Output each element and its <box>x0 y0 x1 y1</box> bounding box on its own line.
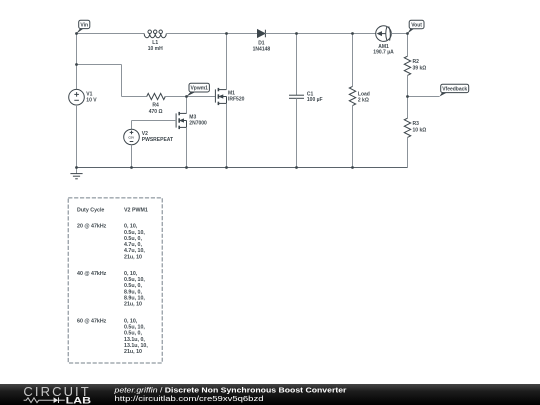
svg-text:2 kΩ: 2 kΩ <box>358 97 369 103</box>
svg-text:R3: R3 <box>413 121 420 127</box>
wire M3 gate to V2 <box>132 121 177 130</box>
annotation table dashed box <box>68 198 162 363</box>
resistor R2 <box>404 34 410 97</box>
svg-text:20 @ 47kHz: 20 @ 47kHz <box>77 224 107 230</box>
resistor R4 <box>147 93 166 99</box>
svg-text:21u, 10: 21u, 10 <box>124 302 142 308</box>
svg-text:0.5u, 0,: 0.5u, 0, <box>124 236 142 242</box>
svg-text:10 mH: 10 mH <box>148 46 163 52</box>
wire top rail (L1 to D1) <box>166 33 257 35</box>
transistor M1 <box>215 88 226 105</box>
junction node Vin at top rail <box>75 32 78 35</box>
wire M1 drain <box>226 34 228 90</box>
transistor M3 <box>176 112 186 129</box>
inductor L1 <box>144 30 166 38</box>
svg-text:Vfeedback: Vfeedback <box>442 86 467 92</box>
svg-text:13.1u, 10,: 13.1u, 10, <box>124 343 148 349</box>
svg-text:IRF520: IRF520 <box>228 97 245 103</box>
svg-text:R2: R2 <box>413 59 420 65</box>
svg-text:0.5u, 0,: 0.5u, 0, <box>124 331 142 337</box>
wire branch to R4 <box>77 65 147 97</box>
wire M3 source to rail <box>186 127 188 167</box>
svg-text:0.5u, 10,: 0.5u, 10, <box>124 325 145 331</box>
svg-text:http://circuitlab.com/cre59xv5: http://circuitlab.com/cre59xv5q6bzd <box>115 394 264 402</box>
svg-text:0.5u, 10,: 0.5u, 10, <box>124 230 145 236</box>
svg-text:10 V: 10 V <box>86 98 97 104</box>
resistor R3 <box>404 97 410 168</box>
svg-text:0.5u, 0,: 0.5u, 0, <box>124 283 142 289</box>
svg-text:4.7u, 0,: 4.7u, 0, <box>124 242 142 248</box>
svg-text:R4: R4 <box>152 103 159 109</box>
svg-text:39 kΩ: 39 kΩ <box>413 66 427 72</box>
wire R4 to M1 gate <box>164 96 215 98</box>
junction C1 bottom / bottom rail <box>295 166 298 169</box>
ammeter AM1 <box>376 26 392 42</box>
voltage source V1 <box>69 89 85 105</box>
node flag Vfeedback <box>440 84 469 96</box>
junction node Vfeedback <box>406 95 409 98</box>
svg-text:8.9u, 0,: 8.9u, 0, <box>124 289 142 295</box>
diode D1 <box>258 30 266 38</box>
wire top rail (D1 to AM1) <box>265 33 375 35</box>
junction node Vout <box>406 32 409 35</box>
junction V2 bottom / bottom rail <box>130 166 133 169</box>
svg-text:13.1u, 0,: 13.1u, 0, <box>124 337 145 343</box>
junction V1 branch to R4 <box>75 63 78 66</box>
junction Load top / top rail <box>351 32 354 35</box>
capacitor C1 <box>289 34 304 168</box>
junction C1 top / top rail <box>295 32 298 35</box>
junction M1 drain / top rail <box>225 32 228 35</box>
svg-text:0, 10,: 0, 10, <box>124 318 138 324</box>
svg-text:1N4148: 1N4148 <box>253 46 271 52</box>
wire top rail left (Vin to L1) <box>77 33 145 35</box>
wire V2 bottom <box>131 145 133 168</box>
svg-text:0.5u, 10,: 0.5u, 10, <box>124 277 145 283</box>
logo CIRCUIT LAB <box>23 384 91 405</box>
wire Vfeedback <box>408 96 440 98</box>
wire M1 source <box>226 103 228 167</box>
svg-text:2N7000: 2N7000 <box>189 121 207 127</box>
svg-text:21u, 10: 21u, 10 <box>124 349 142 355</box>
svg-text:Vout: Vout <box>411 22 422 28</box>
svg-text:L1: L1 <box>152 40 158 46</box>
svg-text:21u, 10: 21u, 10 <box>124 254 142 260</box>
ground <box>70 168 82 179</box>
svg-text:Vpwm1: Vpwm1 <box>190 86 208 92</box>
svg-text:10 kΩ: 10 kΩ <box>413 128 427 134</box>
junction M1 source / bottom rail <box>225 166 228 169</box>
node flag Vout <box>407 20 424 33</box>
voltage source V2 <box>124 129 140 145</box>
svg-text:LAB: LAB <box>66 396 92 405</box>
svg-text:4.7u, 10,: 4.7u, 10, <box>124 248 145 254</box>
svg-text:V1: V1 <box>86 92 92 98</box>
svg-text:peter.griffin / Discrete Non S: peter.griffin / Discrete Non Synchronous… <box>113 386 346 394</box>
wire Vpwm1 node down to M3 drain <box>186 97 188 114</box>
svg-text:V2 PWM1: V2 PWM1 <box>124 208 148 214</box>
svg-text:40 @ 47kHz: 40 @ 47kHz <box>77 271 107 277</box>
svg-text:0, 10,: 0, 10, <box>124 271 138 277</box>
junction M3 source / bottom rail <box>185 166 188 169</box>
svg-text:8.9u, 10,: 8.9u, 10, <box>124 296 145 302</box>
node flag Vpwm1 <box>187 83 210 96</box>
svg-text:100 µF: 100 µF <box>307 97 323 103</box>
junction ground / bottom rail <box>75 166 78 169</box>
svg-text:Vin: Vin <box>80 22 88 28</box>
footer text <box>113 386 346 402</box>
node flag Vin <box>76 20 89 33</box>
wire V1 bottom <box>76 105 78 168</box>
svg-text:CSV: CSV <box>128 135 134 139</box>
svg-text:PWSREPEAT: PWSREPEAT <box>142 137 173 143</box>
svg-text:Duty Cycle: Duty Cycle <box>77 208 104 214</box>
junction node Vpwm1 <box>185 95 188 98</box>
svg-text:470 Ω: 470 Ω <box>149 109 163 115</box>
wire bottom rail <box>77 167 408 169</box>
svg-text:60 @ 47kHz: 60 @ 47kHz <box>77 318 107 324</box>
annotation table text <box>77 208 148 355</box>
resistor Load <box>349 34 355 168</box>
svg-text:0, 10,: 0, 10, <box>124 224 138 230</box>
wire V1 top <box>76 34 78 90</box>
wire top rail (AM1 to Vout node) <box>391 33 407 35</box>
junction Load bottom / bottom rail <box>351 166 354 169</box>
svg-text:190.7 µA: 190.7 µA <box>373 49 394 55</box>
